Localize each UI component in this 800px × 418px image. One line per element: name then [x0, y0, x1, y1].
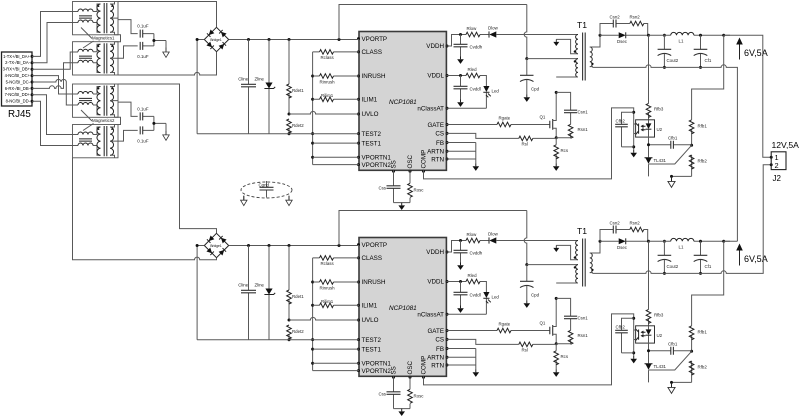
svg-text:Rosc: Rosc [414, 188, 425, 193]
svg-text:Rlow: Rlow [467, 26, 478, 31]
svg-text:RTN: RTN [431, 156, 444, 163]
svg-text:Cfb2: Cfb2 [616, 118, 626, 123]
svg-text:Rsl: Rsl [522, 141, 528, 146]
svg-text:VPORTN1: VPORTN1 [362, 154, 392, 161]
svg-text:NCP1081: NCP1081 [389, 99, 417, 106]
svg-text:6V,5A: 6V,5A [744, 48, 768, 58]
svg-text:CLASS: CLASS [362, 49, 383, 56]
svg-text:0.1uF: 0.1uF [137, 24, 149, 29]
svg-text:Rsn1: Rsn1 [578, 127, 589, 132]
svg-text:8-NC/BI_DD-: 8-NC/BI_DD- [6, 99, 31, 104]
svg-text:FB: FB [436, 140, 444, 147]
svg-text:7-NC/BI_DD+: 7-NC/BI_DD+ [5, 92, 31, 97]
svg-text:Bridge1: Bridge1 [210, 38, 222, 42]
svg-text:Rcs: Rcs [561, 148, 569, 153]
svg-text:Dlow: Dlow [488, 26, 499, 31]
svg-text:ARTN: ARTN [427, 149, 444, 156]
svg-text:U2: U2 [657, 127, 663, 132]
svg-text:Rsn2: Rsn2 [630, 14, 641, 19]
svg-text:UVLO: UVLO [362, 111, 379, 118]
svg-text:Cvddl: Cvddl [470, 87, 481, 92]
svg-text:Cf1: Cf1 [705, 58, 712, 63]
svg-text:Rfb2: Rfb2 [698, 159, 708, 164]
svg-text:VPORTN2: VPORTN2 [362, 162, 392, 169]
svg-text:Rinrush: Rinrush [320, 79, 336, 84]
svg-text:Rfb1: Rfb1 [698, 123, 708, 128]
svg-text:2-TX-/BI_DA-: 2-TX-/BI_DA- [5, 60, 30, 65]
svg-text:TEST2: TEST2 [362, 131, 382, 138]
svg-text:Cout2: Cout2 [667, 58, 679, 63]
svg-text:ILIM1: ILIM1 [362, 97, 378, 104]
svg-text:Magnetics1: Magnetics1 [92, 36, 115, 41]
svg-text:VDDH: VDDH [426, 43, 444, 50]
svg-text:Rilim1: Rilim1 [321, 93, 334, 98]
svg-text:VPORTP: VPORTP [362, 36, 388, 43]
svg-text:Csn2: Csn2 [610, 14, 621, 19]
svg-text:6-RX-/BI_DB-: 6-RX-/BI_DB- [5, 86, 31, 91]
svg-text:Led: Led [492, 89, 500, 94]
svg-text:Cgnd: Cgnd [259, 182, 270, 187]
svg-text:4-NC/BI_DC+: 4-NC/BI_DC+ [5, 73, 31, 78]
svg-text:L1: L1 [679, 38, 684, 43]
svg-text:Rled: Rled [468, 67, 478, 72]
svg-text:Magnetics2: Magnetics2 [92, 118, 115, 123]
svg-text:T1: T1 [577, 20, 587, 30]
svg-text:Cline: Cline [238, 76, 249, 81]
svg-text:0.1uF: 0.1uF [137, 107, 149, 112]
svg-text:COMP: COMP [421, 150, 428, 169]
svg-text:12V,5A: 12V,5A [772, 140, 800, 150]
svg-text:1-TX+/BI_DA+: 1-TX+/BI_DA+ [3, 54, 31, 59]
svg-text:Css: Css [378, 186, 386, 191]
svg-text:TL431: TL431 [654, 158, 667, 163]
svg-text:0.1uF: 0.1uF [137, 138, 149, 143]
svg-text:2: 2 [775, 161, 779, 170]
svg-text:CS: CS [435, 131, 444, 138]
svg-text:0.1uF: 0.1uF [137, 54, 149, 59]
svg-text:nClassAT: nClassAT [417, 105, 444, 112]
svg-text:INRUSH: INRUSH [362, 73, 386, 80]
svg-text:Cpd: Cpd [531, 87, 540, 92]
svg-text:Csn1: Csn1 [578, 110, 589, 115]
svg-text:SS: SS [391, 160, 398, 168]
svg-text:3-RX+/BI_DB+: 3-RX+/BI_DB+ [3, 67, 31, 72]
svg-text:Cfb1: Cfb1 [668, 136, 678, 141]
svg-text:Rdet1: Rdet1 [292, 88, 304, 93]
svg-text:TEST1: TEST1 [362, 140, 382, 147]
svg-text:Q1: Q1 [540, 114, 546, 119]
svg-text:Rdet2: Rdet2 [292, 123, 304, 128]
svg-text:Dsec: Dsec [617, 39, 628, 44]
svg-text:RJ45: RJ45 [8, 109, 31, 120]
svg-text:Cvddh: Cvddh [470, 45, 483, 50]
svg-text:Zline: Zline [254, 76, 264, 81]
svg-text:OSC: OSC [407, 154, 414, 168]
svg-text:Rclass: Rclass [321, 55, 335, 60]
svg-text:5-NC/BI_DC-: 5-NC/BI_DC- [6, 79, 31, 84]
svg-text:Rgate: Rgate [499, 116, 511, 121]
svg-text:VDDL: VDDL [427, 73, 444, 80]
svg-text:J2: J2 [773, 174, 782, 183]
svg-text:GATE: GATE [427, 122, 444, 129]
svg-text:Rfb3: Rfb3 [654, 106, 664, 111]
